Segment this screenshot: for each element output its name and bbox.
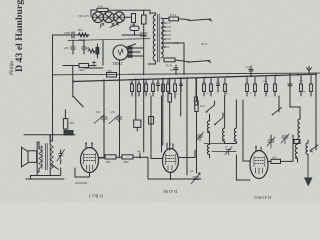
svg-text:P 51: P 51 [170,13,176,17]
svg-text:M 55: M 55 [201,42,208,46]
svg-text:5M2: 5M2 [79,68,85,72]
svg-text:GW: GW [200,105,205,108]
svg-text:φ2: φ2 [190,169,194,173]
svg-text:TPa: TPa [107,69,113,73]
svg-text:μA: μA [137,150,141,153]
svg-text:Philips: Philips [10,61,15,76]
svg-text:H 41 06 0: H 41 06 0 [254,195,271,200]
svg-text:10C: 10C [167,38,172,41]
svg-text:H 41 80: H 41 80 [164,189,178,194]
svg-text:2C: 2C [167,46,170,49]
svg-text:B46: B46 [106,161,111,164]
svg-text:TRS 435: TRS 435 [78,14,89,18]
svg-text:P 50: P 50 [166,64,172,68]
svg-text:D Bct 1: D Bct 1 [88,194,103,199]
svg-text:P W: P W [98,5,103,9]
svg-text:CAF: CAF [130,24,136,27]
svg-text:5000: 5000 [123,161,129,164]
svg-text:M2: M2 [170,68,175,72]
svg-text:4700: 4700 [64,31,71,35]
svg-text:TRS 2: TRS 2 [112,61,122,66]
svg-text:μF1: μF1 [64,46,69,50]
svg-text:PHI NEEF: PHI NEEF [74,181,87,184]
svg-text:5M: 5M [70,121,75,125]
svg-text:D 43 el Hamburg: D 43 el Hamburg [14,0,25,72]
svg-text:GW: GW [272,157,277,160]
svg-text:B12: B12 [78,28,84,32]
